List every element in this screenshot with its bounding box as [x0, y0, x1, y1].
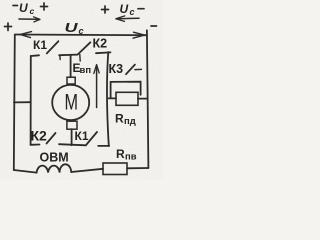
- svg-text:c: c: [130, 7, 135, 17]
- svg-text:U: U: [65, 20, 79, 35]
- svg-text:К2: К2: [93, 37, 108, 51]
- svg-text:вп: вп: [80, 65, 92, 76]
- svg-text:К2: К2: [31, 128, 48, 144]
- svg-text:U: U: [19, 1, 28, 15]
- svg-text:c: c: [30, 6, 35, 16]
- svg-text:К1: К1: [75, 129, 89, 143]
- svg-text:К1: К1: [33, 38, 47, 52]
- svg-text:ОВМ: ОВМ: [40, 151, 69, 165]
- svg-text:пд: пд: [124, 116, 136, 127]
- svg-text:пв: пв: [125, 152, 137, 163]
- svg-text:c: c: [79, 26, 84, 36]
- svg-text:R: R: [115, 112, 124, 126]
- svg-text:U: U: [120, 2, 129, 16]
- svg-text:К3: К3: [109, 62, 124, 76]
- svg-text:М: М: [65, 89, 79, 114]
- svg-text:R: R: [116, 147, 125, 161]
